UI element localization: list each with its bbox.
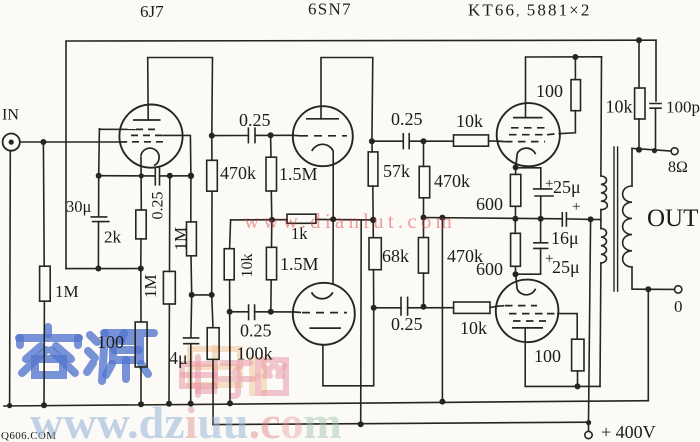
svg-text:68k: 68k <box>382 246 409 266</box>
svg-text:30μ: 30μ <box>66 197 92 216</box>
svg-text:1.5M: 1.5M <box>279 164 318 184</box>
svg-text:100p: 100p <box>666 98 700 117</box>
svg-text:25μ: 25μ <box>553 177 581 197</box>
svg-text:0.25: 0.25 <box>240 321 272 341</box>
svg-text:10k: 10k <box>239 254 256 278</box>
svg-text:6SN7: 6SN7 <box>308 0 352 19</box>
svg-text:8Ω: 8Ω <box>668 159 688 176</box>
svg-text:25μ: 25μ <box>552 257 580 277</box>
svg-text:www.dianlut.com: www.dianlut.com <box>244 209 456 233</box>
svg-text:4μ: 4μ <box>169 348 188 368</box>
svg-text:16μ: 16μ <box>551 228 579 248</box>
svg-text:0.25: 0.25 <box>391 314 423 334</box>
svg-text:+: + <box>572 199 580 215</box>
svg-text:10k: 10k <box>460 318 487 338</box>
svg-text:1.5M: 1.5M <box>280 254 319 274</box>
svg-text:10k: 10k <box>456 111 483 131</box>
svg-text:100: 100 <box>536 81 563 101</box>
svg-text:0.25: 0.25 <box>391 109 423 129</box>
svg-text:600: 600 <box>476 194 503 214</box>
svg-text:100: 100 <box>534 346 561 366</box>
svg-text:www.dziuu.com: www.dziuu.com <box>30 397 342 442</box>
svg-text:10k: 10k <box>606 97 633 117</box>
svg-text:470k: 470k <box>220 163 256 183</box>
svg-text:600: 600 <box>476 259 503 279</box>
svg-text:470k: 470k <box>434 171 470 191</box>
svg-text:1M: 1M <box>171 227 190 251</box>
svg-text:+ 400V: + 400V <box>601 422 656 442</box>
svg-text:KT66, 5881×2: KT66, 5881×2 <box>468 1 591 20</box>
svg-text:0.25: 0.25 <box>150 192 167 220</box>
svg-text:100: 100 <box>97 332 124 352</box>
svg-text:IN: IN <box>2 107 19 124</box>
svg-text:OUT: OUT <box>647 205 698 232</box>
svg-text:0.25: 0.25 <box>239 110 271 130</box>
svg-text:0: 0 <box>674 297 683 316</box>
svg-text:1M: 1M <box>141 274 160 298</box>
svg-text:1M: 1M <box>55 282 79 301</box>
svg-text:2k: 2k <box>104 228 122 247</box>
svg-text:100k: 100k <box>237 344 273 364</box>
svg-text:6J7: 6J7 <box>140 2 164 21</box>
svg-text:57k: 57k <box>383 161 410 181</box>
